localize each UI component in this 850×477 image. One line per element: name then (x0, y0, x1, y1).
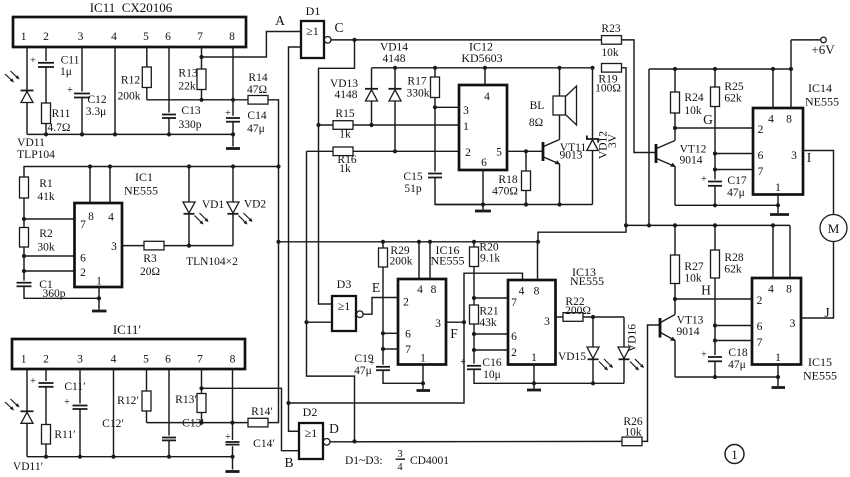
svg-text:10μ: 10μ (483, 369, 501, 381)
svg-text:10k: 10k (624, 427, 642, 439)
svg-text:C14′: C14′ (253, 438, 275, 450)
resistor R20 (470, 242, 501, 306)
resistor R2 (20, 228, 55, 254)
svg-text:R12: R12 (121, 75, 140, 87)
IC16 box NE555 (398, 243, 465, 365)
wire +6V feed down (648, 69, 650, 225)
svg-text:1: 1 (775, 182, 781, 194)
capacitor C19 (354, 353, 390, 377)
capacitor C15 (403, 171, 442, 195)
wire IC13 pin8 stub (537, 242, 539, 280)
svg-text:R2: R2 (39, 228, 53, 240)
wire R14 to +rail corner (268, 100, 279, 424)
svg-text:R14: R14 (248, 72, 267, 84)
svg-text:H: H (701, 283, 711, 298)
svg-text:R15: R15 (335, 108, 354, 120)
svg-text:C14: C14 (247, 110, 266, 122)
IC12 box KD5603 (459, 40, 507, 171)
svg-text:A: A (275, 13, 285, 28)
svg-text:C11: C11 (61, 55, 80, 67)
wire net J motor to IC15 pin3 (801, 242, 834, 319)
wire net B pin7' to D2 input (202, 388, 300, 450)
capacitor C16 (460, 357, 502, 381)
svg-text:BL: BL (530, 100, 545, 112)
svg-text:R3: R3 (143, 253, 157, 265)
svg-text:R28: R28 (724, 252, 743, 264)
wire IC14 pin8 stub (790, 69, 792, 108)
capacitor C13' (162, 418, 204, 442)
svg-text:D2: D2 (303, 405, 318, 419)
svg-text:E: E (372, 280, 380, 295)
svg-text:22k: 22k (178, 81, 196, 93)
svg-text:R11: R11 (52, 108, 71, 120)
svg-text:62k: 62k (724, 93, 742, 105)
wire D1 input2 from F line (289, 47, 302, 403)
svg-text:7: 7 (197, 31, 203, 43)
svg-text:8: 8 (229, 31, 235, 43)
svg-text:3: 3 (397, 449, 402, 460)
wire R13' to Vcc' line (201, 413, 203, 423)
svg-text:1: 1 (463, 121, 469, 133)
svg-text:TLN104×2: TLN104×2 (186, 256, 238, 268)
svg-text:5: 5 (143, 354, 149, 366)
svg-text:7: 7 (758, 166, 764, 178)
wire net D D2 out to R26 (330, 440, 622, 442)
svg-text:41k: 41k (37, 191, 55, 203)
ground under IC1 (92, 310, 107, 313)
wire IC11' pin5 to R12' (146, 369, 148, 423)
resistor R15 (333, 108, 355, 141)
svg-text:≥1: ≥1 (338, 299, 351, 313)
wire R23 to VT12 base (622, 40, 657, 153)
capacitor C11' (30, 376, 85, 393)
svg-text:200k: 200k (390, 256, 413, 268)
svg-text:+: + (460, 357, 466, 368)
svg-text:470Ω: 470Ω (492, 186, 518, 198)
IC13 box NE555 (508, 265, 604, 365)
resistor R1 (20, 177, 55, 203)
wire +rail y68 left section (372, 67, 593, 69)
svg-text:NE555: NE555 (803, 369, 837, 383)
svg-text:10k: 10k (684, 273, 702, 285)
node pin8 Vcc (231, 98, 235, 102)
wire net F IC16 pin3 (446, 321, 464, 323)
node bus junctions (44, 132, 48, 136)
diode VD13 (330, 68, 378, 127)
LED VD1 (183, 167, 224, 246)
svg-text:R21: R21 (479, 306, 498, 318)
IC14 box NE555 (753, 81, 839, 195)
IC15 box NE555 (752, 278, 837, 383)
svg-text:R27: R27 (684, 261, 703, 273)
resistor R14' (248, 406, 273, 427)
capacitor C14 (225, 108, 267, 135)
wire IC1 pin4 stub (109, 167, 111, 204)
svg-text:330p: 330p (179, 119, 202, 131)
svg-text:R13′: R13′ (175, 394, 197, 406)
svg-text:4: 4 (484, 91, 490, 103)
wire IC11' pin2 down (45, 369, 47, 457)
svg-text:+: + (64, 397, 70, 408)
resistor R24 (671, 69, 704, 130)
svg-text:C18: C18 (728, 347, 747, 359)
ground under C14 (226, 147, 240, 150)
wire IC11' pin6 down (168, 369, 170, 457)
svg-text:8: 8 (88, 211, 94, 223)
+6V terminal (791, 37, 835, 57)
svg-text:51p: 51p (404, 183, 422, 195)
resistor R12' (117, 391, 151, 411)
resistor R21 (470, 305, 499, 364)
svg-text:R1: R1 (39, 178, 53, 190)
wire IC11 pin6 down (168, 47, 170, 134)
svg-text:R25: R25 (724, 81, 743, 93)
svg-text:3: 3 (463, 105, 469, 117)
wire R17 to pin3 and C15 (434, 68, 436, 77)
wire IC16 pin8 stub (429, 242, 431, 279)
svg-text:5: 5 (496, 147, 502, 159)
wire pin6 IC1 (24, 255, 75, 257)
svg-text:6: 6 (511, 331, 517, 343)
capacitor C14' (225, 432, 275, 450)
svg-text:43k: 43k (479, 317, 497, 329)
svg-text:47μ: 47μ (354, 365, 372, 377)
svg-text:47Ω: 47Ω (247, 84, 267, 96)
svg-text:R17: R17 (407, 76, 426, 88)
wire R15 line to IC12 pin1 (319, 124, 460, 126)
wire IC12 pin5 to VT11 base (507, 150, 543, 152)
transistor VT13 (660, 299, 704, 377)
gate D3 (332, 277, 363, 331)
svg-text:KD5603: KD5603 (461, 51, 502, 65)
speaker BL (529, 68, 577, 140)
resistor R29 (379, 242, 413, 365)
svg-text:C15: C15 (403, 171, 422, 183)
IC11' box (12, 322, 245, 369)
svg-text:2: 2 (43, 31, 49, 43)
svg-text:3: 3 (111, 241, 117, 253)
wire Vcc line y100 (147, 99, 248, 101)
svg-text:47μ: 47μ (728, 359, 746, 371)
capacitor C12' (64, 397, 124, 430)
svg-text:G: G (703, 112, 713, 127)
wire IC15 pins 6,7 (715, 325, 752, 327)
zener VD12 (587, 68, 619, 205)
wire IC11 pin7 down (201, 47, 203, 100)
svg-text:R14′: R14′ (251, 406, 273, 418)
label circled 1 (725, 445, 744, 464)
node pin7' junction (199, 386, 203, 390)
ground under IC14 (770, 213, 789, 216)
wire supply bus y242 (279, 241, 539, 243)
resistor R12 (118, 67, 152, 103)
wire D2 input1 (289, 430, 300, 432)
svg-text:4: 4 (111, 31, 117, 43)
resistor R16 (333, 147, 357, 175)
svg-text:VD15: VD15 (558, 351, 586, 363)
svg-text:VD2: VD2 (244, 199, 267, 211)
svg-text:6: 6 (405, 329, 411, 341)
svg-text:5: 5 (143, 31, 149, 43)
ground under IC12 (475, 210, 491, 213)
svg-text:4: 4 (108, 212, 114, 224)
svg-text:VD1: VD1 (202, 199, 225, 211)
svg-text:10k: 10k (684, 105, 702, 117)
svg-text:2: 2 (403, 297, 409, 309)
svg-text:2: 2 (80, 267, 86, 279)
wire VT12 emitter line to IC14 pin1 (675, 204, 778, 206)
svg-text:2: 2 (758, 124, 764, 136)
wire Vcc' line y423 (147, 422, 249, 424)
svg-text:CD4001: CD4001 (410, 455, 449, 467)
svg-text:7: 7 (197, 354, 203, 366)
svg-text:J: J (824, 305, 829, 320)
wire IC11 pin1 down (26, 47, 28, 134)
svg-text:3.3μ: 3.3μ (86, 106, 107, 118)
capacitor C11 (30, 55, 79, 79)
resistor R28 (711, 225, 744, 355)
wire F up to IC13 pin4 (464, 273, 523, 322)
wire IC14 pin1 to ground (777, 195, 779, 214)
svg-text:4: 4 (417, 284, 423, 296)
svg-text:200k: 200k (118, 91, 141, 103)
svg-text:2: 2 (43, 354, 49, 366)
svg-text:8: 8 (431, 284, 437, 296)
resistor R25 (711, 69, 744, 181)
gate D2 (299, 405, 330, 459)
wire C16 to LED return line (474, 369, 624, 383)
svg-text:4: 4 (519, 286, 525, 298)
IC11 box CX20106 (13, 0, 246, 47)
svg-text:8Ω: 8Ω (529, 117, 543, 129)
svg-text:4: 4 (111, 354, 117, 366)
svg-text:NE555: NE555 (124, 184, 158, 198)
wire R16 line to IC12 pin2 (307, 150, 460, 152)
svg-text:2: 2 (757, 295, 763, 307)
svg-text:VD11′: VD11′ (13, 461, 43, 473)
svg-text:C11′: C11′ (64, 381, 85, 393)
wire +6V down to bus (790, 40, 792, 69)
svg-text:4: 4 (397, 462, 403, 473)
resistor R19 (595, 64, 621, 95)
wire R22 to LEDs (583, 316, 624, 318)
svg-text:R23: R23 (601, 23, 620, 35)
svg-text:6: 6 (758, 150, 764, 162)
wire net C D1 output to R23 (331, 39, 602, 41)
wire net A from pin7 to D1 input (202, 32, 302, 58)
svg-text:+: + (225, 108, 231, 119)
svg-text:R13: R13 (178, 68, 197, 80)
svg-text:C17: C17 (727, 175, 746, 187)
resistor R26 (622, 416, 643, 446)
svg-text:+: + (30, 376, 36, 387)
wire net E D3 out to IC16 pin2 (363, 298, 398, 315)
svg-text:4: 4 (768, 114, 774, 126)
wire R16 net down to D3 input2 and D line (307, 151, 355, 441)
wire VT13 emitter line to IC15 pin1 (675, 376, 778, 378)
svg-text:R12′: R12′ (117, 395, 139, 407)
wire net C drop to R15 and D3 (319, 40, 355, 304)
svg-text:3: 3 (435, 318, 441, 330)
wire supply bus y69 (649, 68, 791, 70)
wire IC11 pin4 down (114, 47, 116, 134)
wire R26 to VT13 base (642, 325, 660, 441)
svg-text:3: 3 (78, 31, 84, 43)
wire R1 to R2 column (23, 198, 25, 282)
svg-text:VD11: VD11 (17, 137, 45, 149)
wire IC11 pin2 down (45, 47, 47, 134)
wire supply bus y225 (626, 224, 790, 226)
transistor VT12 (656, 128, 707, 205)
svg-text:+: + (30, 56, 36, 67)
svg-text:3: 3 (544, 316, 550, 328)
ground under IC15 (772, 386, 786, 389)
wire IC16 pins 6,7 to C19 column (383, 332, 398, 334)
svg-text:100Ω: 100Ω (595, 83, 621, 95)
wire R20 to IC13 pin7 (474, 297, 508, 299)
wire R14' right lead to +rail (268, 422, 279, 424)
svg-text:+: + (67, 85, 73, 96)
transistor VT11 (543, 140, 586, 207)
svg-text:3: 3 (77, 354, 83, 366)
resistor R13 (178, 68, 206, 93)
wire IC15 pin8 stub (789, 225, 791, 278)
ground under C14' (226, 470, 240, 473)
svg-text:+: + (701, 350, 707, 361)
wire C19 to IC16 pin1 ground (383, 370, 423, 383)
svg-text:62k: 62k (724, 264, 742, 276)
wire IC13 pin3 out (556, 316, 564, 318)
wire R19 to lower bus (622, 68, 627, 226)
svg-text:D: D (329, 421, 339, 436)
wire IC12 pin6 to ground (482, 170, 484, 210)
svg-text:7: 7 (511, 297, 517, 309)
wire C15 to ground line (435, 178, 483, 205)
label D1-D3 CD4001 (345, 449, 449, 473)
svg-text:I: I (807, 150, 812, 165)
wire audio ground line (435, 204, 593, 206)
svg-text:C12: C12 (87, 94, 106, 106)
resistor R22 (563, 296, 591, 321)
svg-text:4148: 4148 (335, 89, 358, 101)
svg-text:VD14: VD14 (380, 42, 408, 54)
capacitor C17 (701, 174, 747, 205)
wire IC13 pin1 ground (533, 365, 535, 389)
wire IC1 pin3 out (122, 245, 144, 247)
wire IC14 pins 6,7 (715, 153, 753, 155)
wire net I IC14 pin3 to motor (803, 151, 834, 215)
wire IC12 pin4 stub (484, 68, 486, 85)
resistor R23 (601, 23, 621, 59)
svg-text:1: 1 (21, 31, 27, 43)
svg-text:330k: 330k (407, 88, 430, 100)
svg-text:1: 1 (531, 352, 537, 364)
svg-text:9.1k: 9.1k (480, 253, 500, 265)
svg-text:D3: D3 (337, 277, 352, 291)
diode VD14 (380, 42, 408, 154)
capacitor C13 (162, 105, 202, 131)
svg-text:1μ: 1μ (60, 66, 72, 78)
svg-text:1: 1 (731, 447, 738, 462)
svg-text:20Ω: 20Ω (140, 266, 160, 278)
wire IC14 pin4 stub (772, 69, 774, 108)
svg-text:B: B (284, 455, 293, 470)
svg-text:IC14: IC14 (808, 81, 832, 95)
svg-text:3: 3 (791, 150, 797, 162)
svg-text:8: 8 (786, 114, 792, 126)
node R13 bottom (199, 98, 203, 102)
svg-text:8: 8 (230, 354, 236, 366)
ground under IC13 (527, 389, 541, 392)
wire IC11 pin3 down (81, 47, 83, 134)
wire IC11' pin7 down (201, 369, 203, 394)
svg-text:≥1: ≥1 (305, 426, 318, 440)
svg-text:VT13: VT13 (677, 315, 704, 327)
svg-text:C: C (334, 20, 343, 35)
photodiode VD11 (5, 71, 55, 161)
wire F to D2 input1 (289, 403, 300, 431)
svg-text:6: 6 (165, 31, 171, 43)
svg-text:1k: 1k (339, 129, 351, 141)
svg-text:2: 2 (465, 147, 471, 159)
svg-text:F: F (450, 326, 458, 341)
svg-text:10k: 10k (601, 47, 619, 59)
wire pin2 IC1 (24, 270, 75, 272)
svg-text:IC11 CX20106: IC11 CX20106 (90, 0, 173, 15)
capacitor C12 (67, 85, 107, 118)
wire IC11' pin8 down through C14' (232, 369, 234, 470)
svg-text:C16: C16 (482, 357, 501, 369)
wire R3 to LEDs (164, 245, 233, 247)
svg-text:R11′: R11′ (54, 429, 75, 441)
svg-text:NE555: NE555 (570, 274, 604, 288)
capacitor C1 (17, 279, 66, 300)
svg-text:C19: C19 (354, 353, 373, 365)
LED VD16 (618, 317, 644, 383)
svg-text:4.7Ω: 4.7Ω (48, 122, 71, 134)
svg-text:VD16: VD16 (627, 324, 639, 352)
wire pin7 IC1 (24, 218, 75, 220)
svg-text:3: 3 (790, 318, 796, 330)
svg-text:4: 4 (768, 284, 774, 296)
svg-text:+: + (701, 174, 707, 185)
resistor R18 (492, 151, 530, 206)
svg-text:47μ: 47μ (727, 187, 745, 199)
svg-text:3V: 3V (607, 133, 619, 148)
wire IC1 pin8 stub (89, 167, 91, 204)
resistor R17 (407, 76, 440, 100)
svg-text:+6V: +6V (811, 42, 835, 57)
svg-text:IC1: IC1 (135, 170, 153, 184)
wire IC11 pin8 down through C14 to ground (232, 47, 234, 147)
wire IC16 pin4 stub (418, 242, 420, 279)
IC1 box NE555 (75, 170, 159, 288)
wire net H to IC15 pin2 (675, 298, 752, 300)
gate D1 (301, 4, 331, 58)
svg-text:R24: R24 (684, 92, 703, 104)
svg-text:8: 8 (786, 284, 792, 296)
svg-text:NE555: NE555 (805, 95, 839, 109)
svg-text:D1~D3:: D1~D3: (345, 455, 383, 467)
svg-text:2: 2 (511, 347, 517, 359)
wire IC11 ground bus (27, 133, 233, 135)
svg-text:9014: 9014 (677, 326, 700, 338)
wire IC11' pin1 down (26, 369, 28, 457)
wire IC11' ground bus (27, 456, 233, 458)
svg-text:IC15: IC15 (808, 355, 832, 369)
svg-text:D1: D1 (306, 4, 321, 18)
resistor R27 (671, 225, 704, 301)
